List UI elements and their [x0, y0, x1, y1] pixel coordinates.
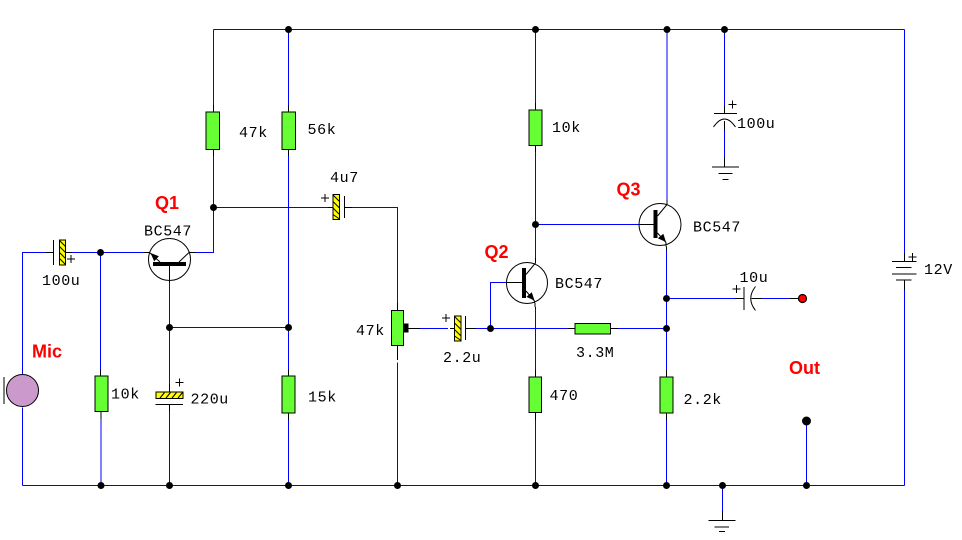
capacitor C6 10u output: [733, 285, 763, 311]
svg-text:100u: 100u: [737, 116, 775, 133]
transistor Q1: [144, 239, 196, 284]
svg-text:12V: 12V: [924, 262, 953, 279]
wire out ground terminal to rail: [806, 425, 808, 486]
resistor R6 10k: [529, 103, 542, 152]
wire node to 3.3M: [491, 328, 576, 330]
microphone Mic: [4, 375, 39, 407]
ground GND1 under 100u C5: [712, 158, 739, 180]
wire 220u bottom to rail: [169, 411, 171, 486]
wire 100u C5 to ground: [724, 130, 726, 158]
wire Q2 collector node to Q3 base: [536, 224, 640, 226]
svg-text:Q2: Q2: [485, 242, 509, 262]
wire 47k R4 bottom to rail: [397, 363, 399, 486]
svg-text:BC547: BC547: [144, 224, 192, 241]
svg-text:100u: 100u: [42, 273, 80, 290]
capacitor C1 100u input: [46, 240, 75, 265]
wire base node to 4u7 cap: [214, 207, 329, 209]
node rail ground: [719, 482, 726, 489]
terminal out signal (red): [790, 295, 807, 303]
wire 100u cap to Q1 emitter: [72, 252, 144, 254]
wire right rail upper (to battery +): [904, 30, 906, 254]
svg-text:47k: 47k: [239, 125, 268, 142]
resistor R4 47k series: [392, 303, 421, 360]
wire Q1 collector up through 47k to top rail: [196, 150, 214, 253]
svg-text:15k: 15k: [308, 390, 337, 407]
svg-text:3.3M: 3.3M: [576, 345, 614, 362]
node Q3 emitter / 3.3M junction: [663, 325, 670, 332]
wire node to 10k R1 top: [100, 253, 102, 377]
node rail 47k R4: [394, 482, 401, 489]
node rail 2.2k: [663, 482, 670, 489]
wire 2.2k bottom to rail: [666, 413, 668, 486]
resistor R9 2.2k: [660, 370, 673, 420]
wire 470 bottom to rail: [535, 413, 537, 486]
wire node down to 220u: [169, 328, 171, 385]
resistor R2 56k: [282, 105, 296, 156]
svg-text:BC547: BC547: [693, 220, 741, 237]
svg-text:2.2k: 2.2k: [684, 392, 722, 409]
resistor R5 15k: [282, 369, 295, 420]
wire node row Q1 base to 56k/15k: [170, 327, 289, 329]
svg-text:47k: 47k: [356, 323, 385, 340]
node 47k R4 tap: [403, 324, 409, 333]
wire 10k R1 bottom to rail: [100, 412, 102, 486]
svg-text:2.2u: 2.2u: [443, 350, 481, 367]
node rail 220u: [166, 482, 173, 489]
wire Q3 emitter down to 2.2k: [666, 250, 668, 377]
node 100u C5 rail junction: [721, 26, 728, 33]
node rail out return: [803, 482, 810, 489]
resistor R1 47k: [206, 105, 220, 156]
wire Q2 emitter down to 470: [535, 309, 537, 377]
svg-text:Q3: Q3: [617, 180, 641, 200]
node 56k top rail junction: [285, 26, 292, 33]
wire 3.3M to Q3 emitter node: [617, 328, 667, 330]
wire node up to Q2 base: [491, 283, 507, 329]
wire Q3 collector to top rail: [666, 30, 668, 201]
svg-text:10k: 10k: [111, 387, 140, 404]
transistor Q3: [639, 200, 681, 250]
resistor R3 10k: [95, 369, 108, 419]
svg-text:Out: Out: [789, 358, 820, 378]
wire bottom rail to ground stub: [722, 486, 724, 512]
capacitor C5 100u decoupling: [714, 101, 738, 131]
wire mic top to 100u cap: [23, 253, 49, 375]
node input junction: [97, 249, 104, 256]
wire 47k R4 tap to 2.2u: [410, 328, 448, 330]
wire Q1 base down to node: [169, 283, 171, 328]
resistor R8 3.3M: [568, 324, 618, 335]
resistor R7 470: [529, 370, 542, 420]
node Q2 collector / Q3 base junction: [532, 221, 539, 228]
node rail 470: [532, 482, 539, 489]
node Q3 collector rail junction: [664, 26, 671, 33]
svg-text:10u: 10u: [740, 270, 769, 287]
node rail 10k R3: [98, 482, 105, 489]
svg-text:Mic: Mic: [32, 342, 62, 362]
node Q1 base row left: [166, 324, 173, 331]
svg-text:220u: 220u: [191, 392, 229, 409]
wire top rail: [214, 29, 905, 31]
node base Q1 / 4u7 junction: [210, 204, 217, 211]
wire 15k bottom to rail: [288, 413, 290, 486]
wire mic bottom to bottom rail: [22, 408, 24, 486]
capacitor C4 2.2u: [442, 314, 476, 341]
wire right rail lower (battery - to bottom rail): [904, 290, 906, 486]
battery B1 12V: [892, 253, 917, 290]
wire Q3 emitter node to 10u cap: [667, 298, 736, 300]
svg-text:Q1: Q1: [155, 193, 179, 213]
svg-text:470: 470: [550, 388, 579, 405]
wire 4u7 to 47k R4 top: [352, 208, 398, 311]
node rail 15k: [285, 482, 292, 489]
ground GND2 bottom rail: [709, 511, 736, 532]
wire top rail to 100u C5: [724, 30, 726, 107]
svg-text:10k: 10k: [552, 120, 581, 137]
node Q3 emitter / 10u junction: [663, 295, 670, 302]
wire 56k branch: [288, 30, 290, 113]
transistor Q2: [507, 258, 548, 309]
wire Q2 collector up through 10k to top rail: [535, 146, 537, 259]
svg-text:4u7: 4u7: [330, 170, 359, 187]
capacitor C3 4u7: [321, 194, 352, 220]
wire bottom rail: [23, 485, 905, 487]
node Q2 base junction: [487, 325, 494, 332]
svg-text:BC547: BC547: [555, 276, 603, 293]
wire 2.2u to Q2 base node: [476, 328, 491, 330]
node Q1 base row right: [285, 324, 292, 331]
wire 10u cap to out terminal: [762, 298, 790, 300]
svg-text:56k: 56k: [308, 122, 337, 139]
capacitor C2 220u: [156, 379, 184, 412]
terminal out ground: [802, 417, 811, 426]
node 10k R6 top rail junction: [532, 26, 539, 33]
